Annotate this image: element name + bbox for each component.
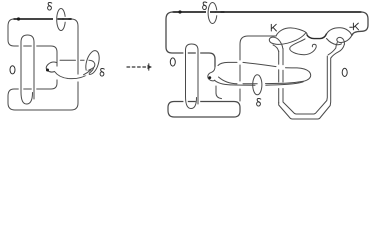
delta label (right) bbox=[100, 69, 104, 77]
gap: top edge under delta ellipse left arc bbox=[53, 17, 57, 22]
top-left corner + left edge + upper horizontal + rect top bbox=[166, 12, 215, 67]
cusp dot bbox=[46, 69, 49, 72]
gap: strip legs over top horizontal y46 bbox=[19, 44, 24, 49]
K / -K labels bbox=[271, 24, 276, 31]
tongue upper strand bbox=[60, 59, 85, 61]
delta ellipse (bottom, right diagram) bbox=[253, 75, 262, 95]
gaps strip legs over y101.5 bbox=[183, 99, 187, 104]
tongue upper strand + right tip bbox=[218, 62, 311, 81]
inter-ear segment bbox=[307, 34, 327, 39]
strip loop (right diagram) bbox=[186, 44, 199, 104]
gap: right vertical x78 at swoop bbox=[76, 75, 80, 82]
0-framed strip loop bbox=[21, 35, 34, 99]
delta label (top) bbox=[48, 3, 52, 11]
top right corner + hook bbox=[352, 12, 368, 35]
low arc with curl between ears bbox=[290, 39, 316, 55]
top edge bbox=[173, 11, 361, 13]
delta ellipse (top, right diagram) bbox=[208, 3, 217, 24]
0 label (left diagram) bbox=[10, 66, 15, 74]
band double verticals (left pair) bbox=[279, 49, 283, 104]
tongue cusp + swoop bbox=[46, 62, 93, 79]
gap for delta ellipse bbox=[206, 10, 210, 15]
U band bottom (inner) bbox=[283, 56, 327, 114]
strip clasp U bbox=[21, 92, 33, 104]
band vertical x240 bbox=[240, 36, 276, 101]
delta ellipse (top, left diagram) bbox=[57, 9, 66, 31]
orientation dot (right diagram) bbox=[178, 10, 181, 13]
top edge over ellipse right arc bbox=[63, 18, 71, 20]
gap: right vertical x57 at cusp/swoop bbox=[55, 67, 59, 80]
orientation dot on top edge bbox=[17, 17, 20, 20]
strip clasp U bbox=[186, 97, 197, 109]
tongue lower strand A (oval return) bbox=[219, 77, 304, 84]
delta ellipse (right, tilted) bbox=[85, 58, 89, 63]
bottom loop: y101.5 and y117 connected at ends bbox=[168, 102, 240, 118]
-K ear bbox=[327, 28, 352, 36]
cusp (right diagram) bbox=[208, 67, 215, 81]
inner rect right edge hook bbox=[216, 86, 222, 99]
U band bottom (outer) bbox=[279, 58, 331, 119]
K ear bbox=[276, 28, 307, 36]
main pattern curve (closed) bbox=[8, 19, 78, 110]
0 labels bbox=[170, 58, 175, 66]
gaps strip legs over y53 bbox=[183, 51, 187, 56]
gap: strip legs over bottom horizontal y89 bbox=[19, 87, 24, 92]
tongue lower strand B (swoop) bbox=[215, 80, 304, 85]
